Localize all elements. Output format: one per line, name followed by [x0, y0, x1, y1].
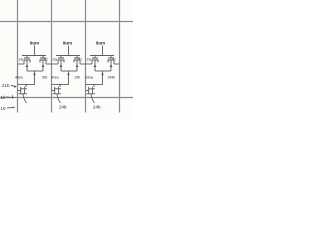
- svg-text:4Ga: 4Ga: [15, 75, 23, 80]
- wire: vertical data line D3: [85, 0, 87, 113]
- arrowhead up left cell1: [26, 64, 29, 67]
- svg-text:1b: 1b: [1, 95, 7, 100]
- tick 1b leader: [12, 95, 14, 98]
- wire: gate stem cell3: [102, 46, 104, 56]
- svg-text:2a: 2a: [87, 57, 92, 62]
- wire: vertical data line D4: [119, 0, 121, 113]
- wire: gate stem cell2: [68, 46, 70, 56]
- wire: 21b leader: [11, 86, 16, 87]
- wire: cell3 storage drop: [94, 71, 103, 84]
- svg-text:2lb: 2lb: [42, 75, 48, 80]
- svg-text:24b: 24b: [59, 105, 67, 110]
- wire: vertical data line D1: [17, 0, 19, 113]
- svg-text:4Ga: 4Ga: [51, 75, 59, 80]
- cell 1: [15, 41, 52, 104]
- cell 3: [86, 41, 120, 110]
- arrowhead up right cell1: [42, 64, 45, 67]
- wire: 10 leader: [7, 107, 15, 109]
- transistor M1a: [18, 56, 31, 72]
- wire: top horizontal bus: [0, 21, 133, 23]
- transistor Q2: [52, 84, 62, 103]
- transistor M2b: [74, 56, 86, 72]
- arrowhead 21b: [14, 86, 17, 88]
- svg-text:2a: 2a: [19, 57, 24, 62]
- svg-text:2lb: 2lb: [75, 75, 81, 80]
- wire: cell1 storage drop: [26, 71, 35, 84]
- wire: 1b leader: [6, 96, 14, 99]
- cell 2: [51, 41, 86, 110]
- arrowhead drop cell1: [33, 74, 36, 77]
- arrowhead drop cell3: [101, 74, 104, 77]
- wire: source connector cell3: [95, 70, 111, 72]
- transistor M3a: [86, 56, 99, 72]
- arrowhead up right cell3: [110, 64, 113, 67]
- transistor M1b: [40, 56, 52, 72]
- svg-text:21b: 21b: [2, 83, 10, 88]
- wire: gate bar cell3: [90, 55, 114, 57]
- svg-text:9um: 9um: [30, 41, 39, 46]
- svg-text:9um: 9um: [63, 41, 72, 46]
- svg-text:2Nb: 2Nb: [108, 75, 116, 80]
- background: [0, 0, 133, 120]
- svg-text:9um: 9um: [96, 41, 105, 46]
- transistor Q1: [18, 84, 28, 103]
- wire: source connector cell1: [27, 70, 43, 72]
- svg-text:10: 10: [1, 106, 7, 111]
- arrowhead up left cell2: [60, 64, 63, 67]
- arrowhead 10: [13, 107, 16, 109]
- svg-text:6Ga: 6Ga: [86, 75, 94, 80]
- transistor Q3: [86, 84, 96, 103]
- arrowhead up right cell2: [76, 64, 79, 67]
- wire: source connector cell2: [61, 70, 77, 72]
- transistor M3b: [108, 56, 120, 72]
- wire: gate stem cell1: [34, 46, 36, 56]
- arrowhead drop cell2: [67, 74, 70, 77]
- wire: gate bar cell2: [56, 55, 80, 57]
- arrowhead up left cell3: [94, 64, 97, 67]
- wire: cell2 storage drop: [60, 71, 69, 84]
- svg-text:2a: 2a: [53, 57, 58, 62]
- wire: vertical data line D2: [51, 0, 53, 113]
- wire: bottom horizontal bus: [0, 97, 133, 99]
- svg-text:24b: 24b: [93, 105, 101, 110]
- wire: gate bar cell1: [22, 55, 46, 57]
- transistor M2a: [52, 56, 65, 72]
